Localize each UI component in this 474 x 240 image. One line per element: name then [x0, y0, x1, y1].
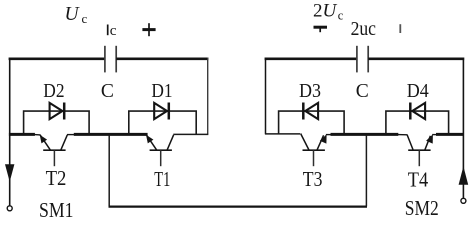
svg-text:T2: T2: [46, 166, 67, 190]
wire: D3 branch with end drops: [279, 111, 345, 134]
label ic current into capacitor: [108, 22, 117, 39]
wire: top rail right of C, SM2 cell: [368, 57, 464, 60]
arrow: SM2 terminal current direction, pointing up: [459, 166, 469, 185]
svg-text:D3: D3: [299, 81, 321, 102]
wire: thick bus left of T2: [9, 133, 35, 136]
diode D4: [410, 103, 425, 120]
wire: top rail right of C, SM1 cell: [116, 57, 208, 60]
transistor T1: [141, 135, 174, 167]
svg-text:D2: D2: [43, 81, 64, 102]
polarity plus mark of capacitor C, SM2 cell: [314, 27, 328, 32]
svg-text:c: c: [110, 22, 117, 39]
svg-text:U: U: [65, 4, 81, 25]
wire: D1 branch with end drops: [129, 111, 196, 134]
svg-text:T3: T3: [303, 167, 323, 191]
capacitor C plates, SM2 cell: [357, 46, 368, 73]
diode D1: [154, 103, 169, 120]
wire: D4 branch with end drops: [386, 111, 449, 134]
wire: top rail left of C, SM2 cell: [265, 57, 357, 60]
svg-text:c: c: [82, 11, 88, 26]
wire: left vertical from top rail down to SM1 terminal: [9, 58, 11, 206]
svg-text:C: C: [356, 81, 369, 102]
wire: thin bus right of T1: [173, 133, 208, 135]
svg-text:2U: 2U: [313, 0, 338, 21]
wire: right vertical of SM1 cell: [207, 58, 209, 135]
diode D2: [50, 103, 65, 120]
svg-text:T1: T1: [154, 167, 170, 191]
wire: D2 branch with end drops: [24, 111, 90, 134]
diode D3: [303, 103, 318, 120]
svg-text:D1: D1: [151, 81, 172, 102]
wire: top rail left of C, SM1 cell: [9, 57, 105, 60]
transistor T2: [35, 135, 75, 167]
svg-text:SM1: SM1: [39, 198, 74, 219]
wire: thin bus left of T3: [265, 133, 300, 135]
wire: midpoint drop of SM2 cell: [365, 136, 367, 207]
wire: left vertical of SM2 cell: [265, 58, 267, 135]
svg-text:D4: D4: [407, 81, 429, 102]
svg-text:SM2: SM2: [405, 196, 439, 219]
wire: thick bus between T2 and T1: [74, 133, 148, 136]
svg-text:T4: T4: [408, 167, 429, 191]
polarity minus tick right of 2uc: [399, 24, 401, 33]
terminal SM2 circle: [461, 198, 466, 203]
wire: thick bus right of T4: [436, 133, 464, 136]
svg-text:c: c: [338, 9, 344, 23]
svg-text:2uc: 2uc: [351, 19, 377, 40]
wire: midpoint drop of SM1 cell: [108, 136, 110, 207]
capacitor C plates, SM1 cell: [105, 46, 116, 73]
terminal SM1 circle: [7, 206, 12, 211]
arrow: SM1 terminal current direction, pointing down: [5, 164, 14, 182]
wire: thick bus between T3 and T4: [331, 133, 399, 136]
transistor T4: [398, 134, 437, 166]
wire: right vertical from top rail down to SM2 terminal: [462, 58, 464, 199]
transistor T3: [301, 134, 332, 167]
polarity plus sign of capacitor C, SM1 cell: [142, 23, 155, 36]
wire: bottom link from SM1 cell midpoint to SM2 cell midpoint: [109, 206, 368, 208]
svg-text:C: C: [101, 81, 114, 102]
